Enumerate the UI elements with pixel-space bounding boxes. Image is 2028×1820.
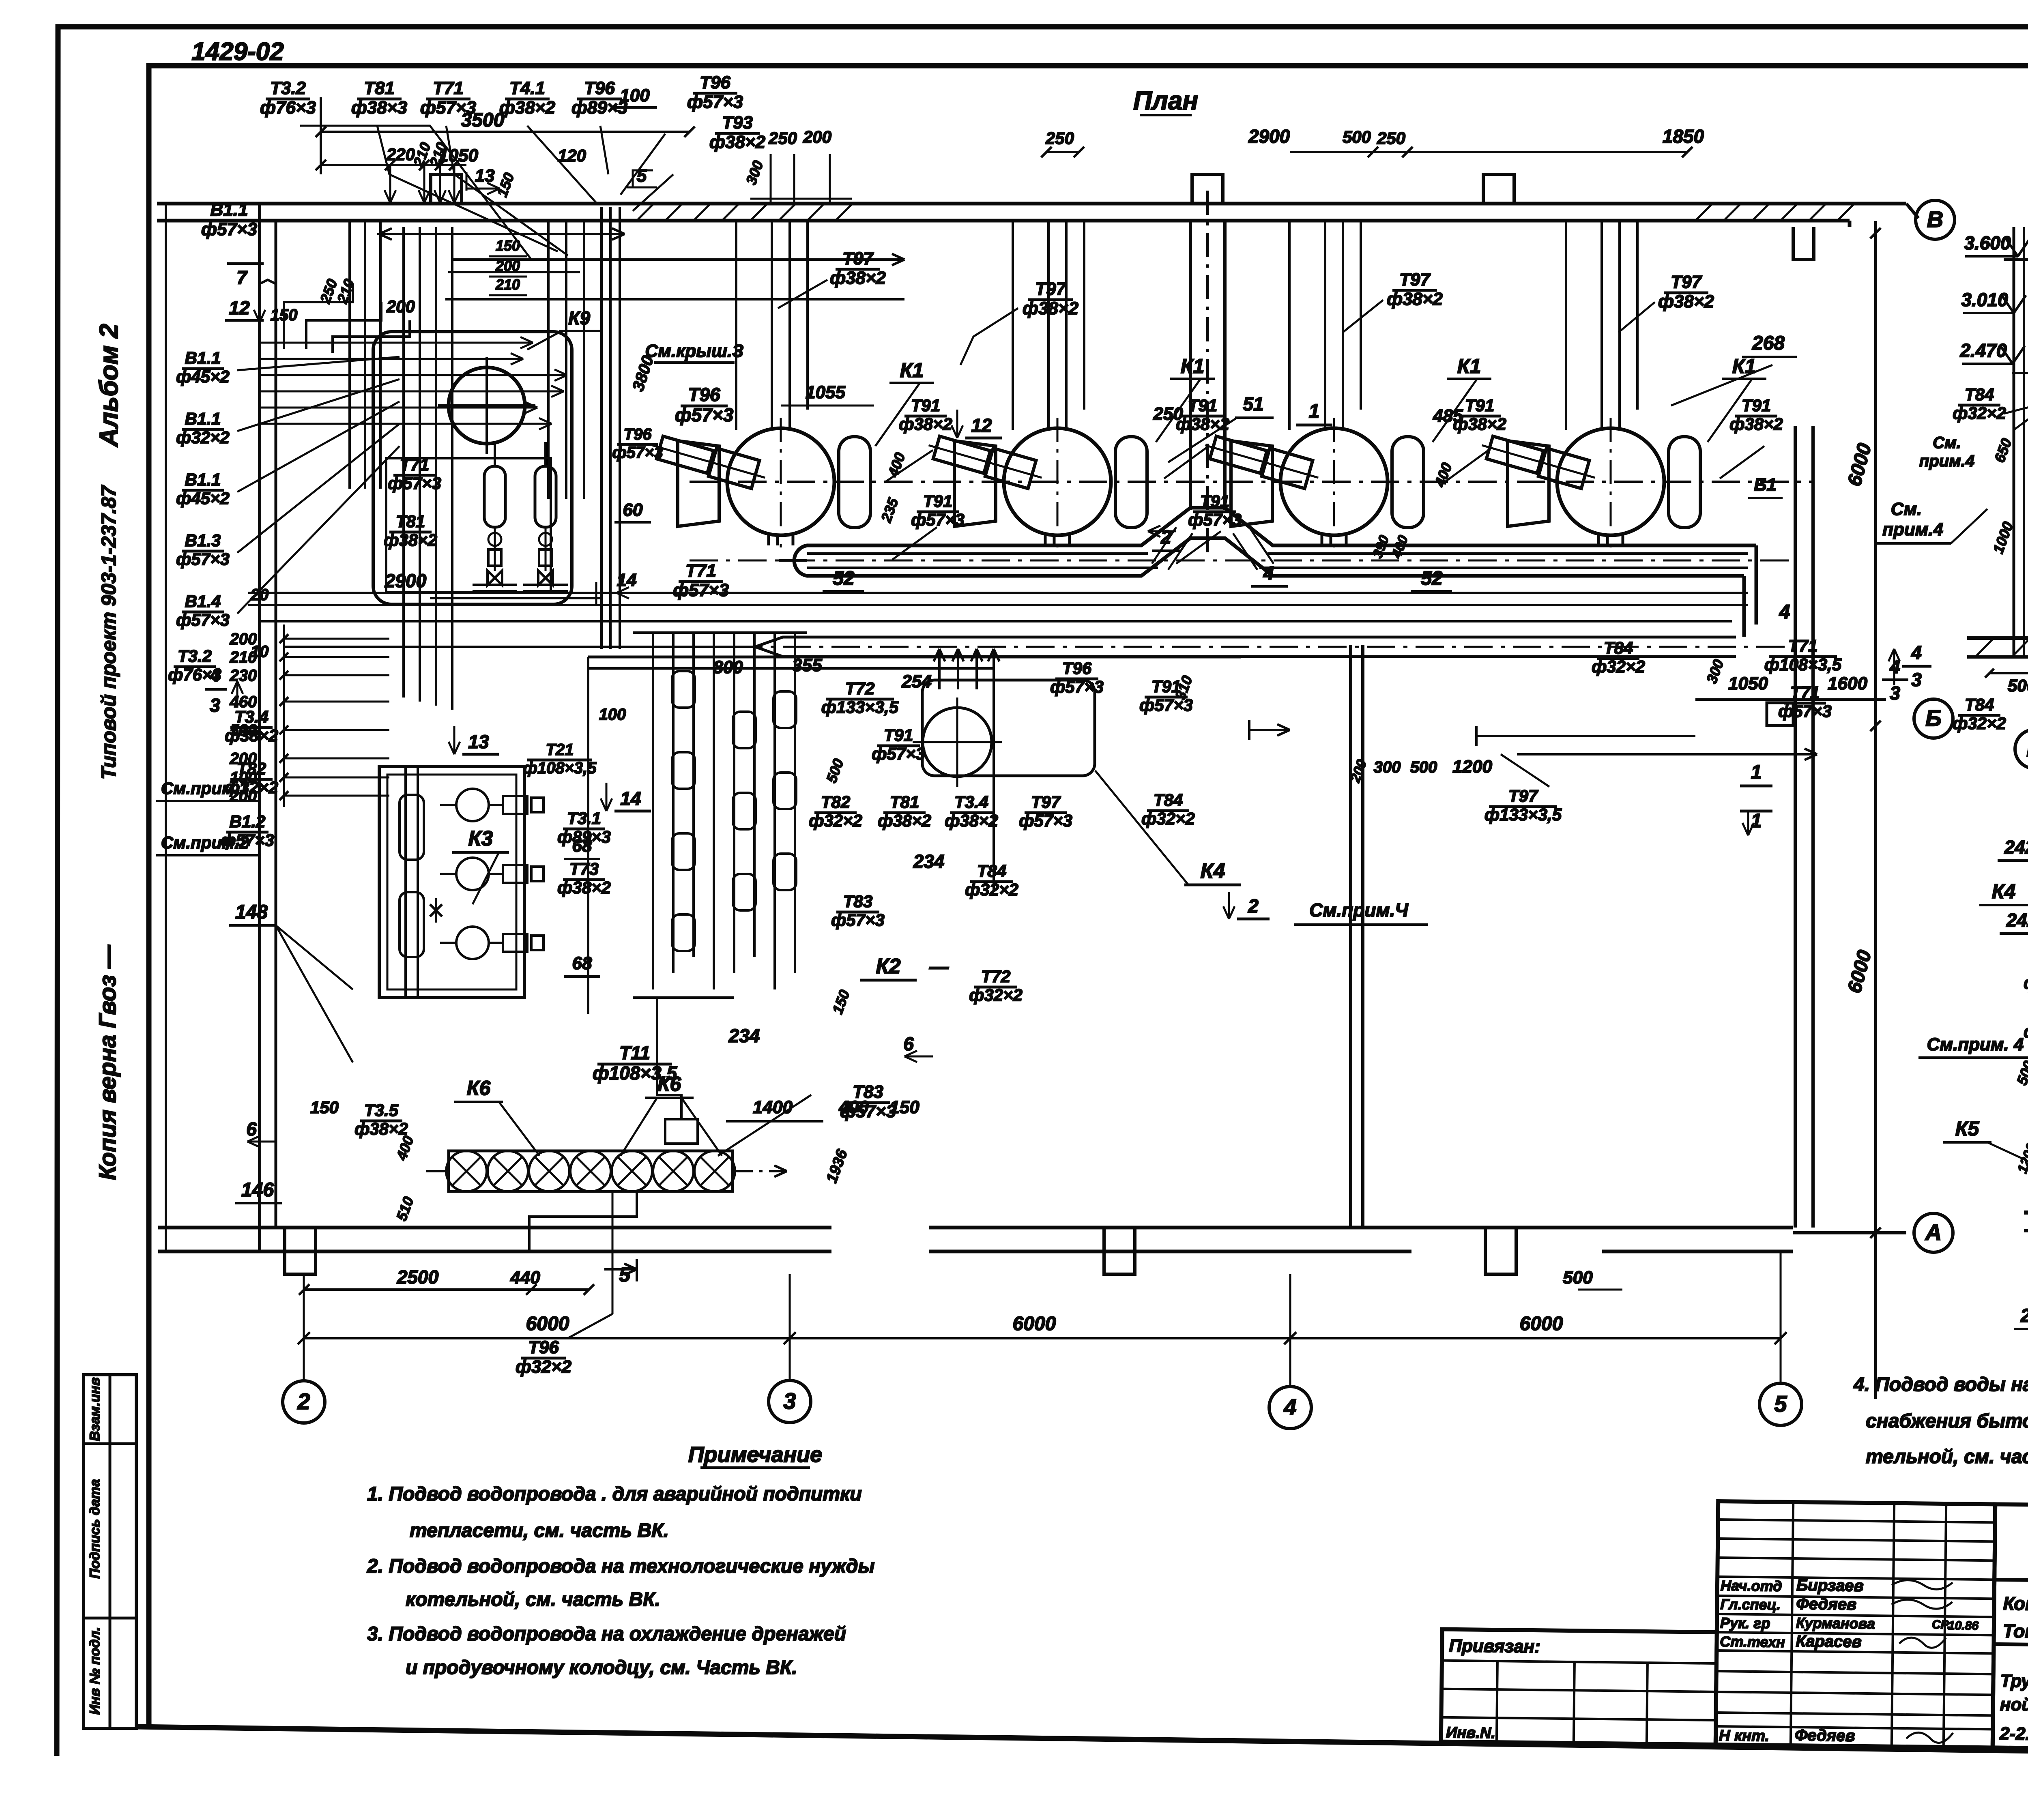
- svg-text:ф57×3: ф57×3: [388, 474, 441, 493]
- svg-text:2900: 2900: [1248, 126, 1290, 147]
- svg-text:Т84: Т84: [977, 861, 1006, 880]
- svg-text:4: 4: [1889, 656, 1900, 677]
- svg-text:Т96: Т96: [688, 384, 720, 405]
- mark 13: [449, 726, 499, 754]
- upper-left riser labels: [168, 200, 527, 684]
- svg-text:3: 3: [1890, 682, 1900, 704]
- svg-text:Б: Б: [1925, 705, 1942, 731]
- vessel columns pair: [430, 442, 600, 598]
- svg-text:Т97: Т97: [1508, 786, 1538, 805]
- svg-text:485: 485: [1433, 406, 1463, 426]
- K1 labels: [875, 355, 1766, 446]
- svg-text:250: 250: [1377, 129, 1405, 148]
- svg-text:ф38×2: ф38×2: [557, 878, 611, 897]
- svg-text:2900: 2900: [385, 570, 427, 591]
- svg-text:Т91: Т91: [1188, 396, 1217, 415]
- svg-text:ф57×3: ф57×3: [831, 910, 885, 929]
- heat exchanger bank: [633, 633, 807, 1144]
- svg-text:200: 200: [230, 630, 257, 648]
- manifold below collector: [588, 657, 1241, 1014]
- svg-text:ф38×2: ф38×2: [830, 268, 886, 288]
- svg-text:Т97: Т97: [1399, 270, 1431, 290]
- svg-text:Федяев: Федяев: [1796, 1595, 1856, 1614]
- svg-text:234: 234: [728, 1025, 760, 1046]
- svg-text:150: 150: [310, 1098, 339, 1117]
- K4 drain tank: [913, 649, 1290, 787]
- boiler K1 unit 2: [925, 221, 1147, 547]
- svg-text:Карасев: Карасев: [1796, 1632, 1862, 1651]
- internal partition wall: [1351, 645, 1363, 1228]
- svg-text:Типовой проект 903-1-237.87: Типовой проект 903-1-237.87: [97, 485, 120, 779]
- svg-text:1: 1: [1751, 762, 1762, 783]
- svg-text:ф38×2: ф38×2: [499, 98, 556, 118]
- svg-text:В1.1: В1.1: [185, 348, 221, 367]
- boiler K1 unit 3: [1201, 221, 1424, 547]
- svg-text:Котельная с 4 котлами Е-1-9ЖН: Котельная с 4 котлами Е-1-9ЖН: [2003, 1593, 2028, 1617]
- svg-text:20: 20: [250, 586, 269, 604]
- left attachment table: [1441, 1629, 1717, 1745]
- wall hatch marks: [637, 204, 1854, 221]
- svg-text:Т93: Т93: [722, 113, 753, 133]
- svg-text:4: 4: [1263, 563, 1274, 584]
- grid circle 3: [769, 1380, 811, 1423]
- svg-text:200: 200: [803, 127, 831, 146]
- svg-text:2500: 2500: [397, 1266, 439, 1288]
- svg-text:6000: 6000: [1520, 1313, 1563, 1335]
- svg-text:Т3.2: Т3.2: [270, 78, 306, 98]
- svg-text:200: 200: [386, 297, 415, 316]
- svg-text:Инв.N.: Инв.N.: [1446, 1724, 1495, 1742]
- svg-text:Т71: Т71: [1788, 636, 1817, 655]
- svg-text:тепласети, см. часть ВК.: тепласети, см. часть ВК.: [410, 1520, 669, 1541]
- svg-text:В1.3: В1.3: [185, 531, 221, 550]
- svg-text:Т83: Т83: [843, 892, 872, 911]
- svg-text:250: 250: [1045, 129, 1074, 148]
- svg-text:ф38×2: ф38×2: [354, 1119, 408, 1138]
- grid circle А: [1914, 1213, 1953, 1252]
- svg-text:прим.4: прим.4: [1919, 452, 1974, 470]
- svg-text:Т97: Т97: [1031, 792, 1061, 811]
- right building wall: [1767, 426, 1813, 1228]
- svg-text:Ст.техн: Ст.техн: [1720, 1633, 1785, 1650]
- grid circle Б section: [2015, 730, 2028, 768]
- svg-text:Т96: Т96: [528, 1337, 559, 1357]
- svg-text:Т96: Т96: [624, 425, 652, 443]
- svg-text:В1.4: В1.4: [185, 592, 221, 611]
- svg-text:120: 120: [558, 146, 586, 165]
- svg-text:Взам.инв: Взам.инв: [87, 1377, 103, 1441]
- svg-text:1: 1: [1309, 401, 1320, 422]
- svg-text:котельной, см. часть ВК.: котельной, см. часть ВК.: [406, 1589, 660, 1610]
- svg-text:—: —: [929, 956, 949, 978]
- svg-text:Инв № подл.: Инв № подл.: [87, 1627, 103, 1715]
- svg-text:Т71: Т71: [400, 455, 429, 474]
- svg-text:10.86: 10.86: [1948, 1619, 1979, 1633]
- main collector header: [690, 508, 1797, 637]
- svg-text:500: 500: [1343, 127, 1371, 146]
- svg-text:ф38×2: ф38×2: [1729, 414, 1783, 434]
- svg-text:Т91: Т91: [1742, 396, 1771, 415]
- svg-text:14: 14: [620, 788, 641, 809]
- svg-text:Т81: Т81: [890, 792, 919, 811]
- title block main: [1993, 1504, 2028, 1753]
- svg-text:Н кнт.: Н кнт.: [1719, 1727, 1770, 1745]
- svg-text:В1.1: В1.1: [185, 409, 221, 428]
- svg-text:268: 268: [1752, 333, 1785, 354]
- svg-text:52: 52: [833, 568, 855, 589]
- vertical pipes near K3: [400, 766, 424, 998]
- svg-text:ф38×2: ф38×2: [878, 811, 931, 830]
- exchanger bottom labels: [523, 706, 626, 977]
- svg-text:Т82: Т82: [237, 759, 266, 778]
- K3 internal pumps: [430, 789, 544, 959]
- svg-text:Т91: Т91: [1465, 396, 1494, 415]
- svg-text:1200: 1200: [1452, 757, 1492, 777]
- svg-text:68: 68: [572, 953, 592, 973]
- svg-text:прим.4: прим.4: [1882, 519, 1943, 539]
- left margin rotated captions: [94, 324, 123, 1180]
- svg-text:13: 13: [468, 731, 489, 752]
- svg-text:План: План: [1133, 86, 1198, 115]
- svg-text:Привязан:: Привязан:: [1449, 1636, 1540, 1657]
- manifold labels: [713, 636, 1886, 785]
- svg-text:Бирзаев: Бирзаев: [1796, 1576, 1864, 1595]
- svg-text:3.010: 3.010: [1961, 289, 2008, 310]
- svg-text:Т73: Т73: [569, 859, 599, 878]
- svg-text:ф45×2: ф45×2: [176, 367, 230, 386]
- svg-text:4: 4: [1283, 1394, 1296, 1420]
- svg-text:3500: 3500: [461, 109, 505, 131]
- svg-text:800: 800: [713, 657, 743, 677]
- svg-text:См.крыш.З: См.крыш.З: [645, 341, 744, 361]
- svg-text:См.прим.1: См.прим.1: [161, 779, 249, 798]
- svg-text:4: 4: [209, 664, 220, 685]
- K4 labels: [1095, 770, 1428, 925]
- svg-text:ф108×3,5: ф108×3,5: [1764, 655, 1842, 674]
- svg-text:ф32×2: ф32×2: [1141, 809, 1195, 828]
- svg-text:ф38×2: ф38×2: [899, 414, 952, 434]
- svg-text:1050: 1050: [1728, 674, 1768, 693]
- svg-text:Т72: Т72: [845, 679, 874, 698]
- mark 14: [601, 783, 651, 811]
- svg-text:100: 100: [620, 86, 650, 105]
- svg-text:ф38×2: ф38×2: [225, 726, 278, 745]
- left horizontal pipes to equipment: [260, 337, 567, 429]
- drop pipe from K6: [529, 1191, 637, 1314]
- T97 leader diagonals: [778, 280, 1655, 365]
- svg-text:К1: К1: [1181, 355, 1205, 378]
- section 1-1 level marks: [1959, 225, 2028, 638]
- misc labels near boilers: [781, 333, 1797, 525]
- svg-text:5: 5: [637, 166, 647, 186]
- svg-text:500: 500: [1410, 758, 1437, 776]
- svg-text:Т81: Т81: [364, 78, 395, 98]
- tank circle with cross: [438, 357, 535, 454]
- svg-text:52: 52: [1421, 568, 1443, 589]
- svg-text:Подпись дата: Подпись дата: [87, 1479, 103, 1578]
- vertical pipe bundle left: [404, 227, 452, 710]
- svg-text:300: 300: [1374, 758, 1401, 776]
- wall pillar stubs: [285, 174, 1516, 1274]
- svg-text:К1: К1: [900, 359, 924, 382]
- svg-text:ф32×2: ф32×2: [176, 428, 230, 447]
- svg-text:5: 5: [1774, 1391, 1787, 1417]
- svg-text:1429-02: 1429-02: [191, 38, 284, 66]
- torpedo header pipe: [284, 637, 1797, 657]
- svg-text:ф32×2: ф32×2: [516, 1357, 572, 1377]
- svg-text:и продувочному колодцу, см.: и продувочному колодцу, см. Часть ВК.: [406, 1657, 797, 1678]
- leader diagonals left: [237, 357, 400, 614]
- svg-text:Б: Б: [2026, 736, 2028, 761]
- svg-text:ф57×3: ф57×3: [176, 549, 230, 569]
- svg-text:ф108×3,5: ф108×3,5: [523, 759, 597, 777]
- svg-text:тельной, см. часть ВК.: тельной, см. часть ВК.: [1866, 1446, 2028, 1468]
- svg-text:К6: К6: [657, 1073, 682, 1095]
- svg-text:ф76×3: ф76×3: [260, 98, 316, 118]
- svg-text:3.600: 3.600: [1964, 232, 2011, 253]
- svg-text:6000: 6000: [1013, 1313, 1056, 1335]
- svg-text:Т72: Т72: [981, 967, 1010, 986]
- svg-text:ф38×2: ф38×2: [1658, 292, 1714, 311]
- mid-right pipes to Б: [1347, 726, 1817, 835]
- svg-text:Копия верна Гвоз —: Копия верна Гвоз —: [95, 944, 121, 1180]
- svg-text:440: 440: [510, 1268, 540, 1288]
- svg-text:ф57×3: ф57×3: [1778, 702, 1832, 721]
- svg-text:В1.1: В1.1: [185, 470, 221, 489]
- svg-text:500: 500: [1563, 1268, 1593, 1288]
- K6 labels: [235, 1073, 722, 1223]
- svg-text:ф32×2: ф32×2: [1592, 657, 1645, 676]
- top pipe labels row: [260, 73, 766, 152]
- svg-text:3: 3: [1911, 669, 1922, 690]
- svg-text:К1: К1: [1457, 355, 1481, 378]
- svg-text:См.прим. 4: См.прим. 4: [1927, 1034, 2024, 1054]
- svg-text:7: 7: [236, 267, 248, 288]
- see note 4 plan label: [1874, 499, 1987, 543]
- svg-text:Примечание: Примечание: [688, 1442, 823, 1467]
- note 4: [1853, 1374, 2028, 1468]
- section 1-1 left labels: [1919, 385, 2028, 658]
- svg-text:14: 14: [617, 570, 637, 590]
- svg-text:Федяев: Федяев: [1795, 1726, 1855, 1745]
- svg-text:250: 250: [768, 129, 797, 148]
- svg-text:ф38×2: ф38×2: [1387, 289, 1443, 309]
- svg-text:2: 2: [1160, 526, 1171, 547]
- svg-text:242: 242: [2006, 910, 2028, 931]
- svg-text:1055: 1055: [806, 382, 845, 402]
- svg-text:234: 234: [913, 851, 945, 872]
- svg-text:ф57×3: ф57×3: [687, 92, 743, 112]
- note 2: [367, 1556, 874, 1610]
- svg-text:1850: 1850: [1663, 126, 1704, 147]
- svg-text:А: А: [1925, 1219, 1942, 1245]
- svg-text:4: 4: [1779, 601, 1790, 623]
- svg-text:13: 13: [475, 166, 495, 186]
- section 2-2 bottom dims: [2014, 1233, 2028, 1374]
- svg-text:4: 4: [1911, 642, 1922, 663]
- section 1-1 bottom dims: [1882, 656, 2028, 733]
- svg-text:355: 355: [792, 655, 822, 675]
- svg-text:12: 12: [229, 297, 250, 318]
- svg-text:ф57×3: ф57×3: [872, 744, 925, 763]
- vertical pipe bundle 2: [548, 207, 620, 649]
- svg-text:6000: 6000: [526, 1313, 569, 1335]
- svg-text:К2: К2: [876, 955, 901, 978]
- svg-text:242: 242: [2004, 837, 2028, 858]
- svg-text:200: 200: [495, 258, 520, 274]
- svg-text:В1.2: В1.2: [230, 812, 266, 831]
- svg-text:ф38×3: ф38×3: [351, 98, 407, 118]
- svg-text:3: 3: [783, 1388, 796, 1414]
- svg-text:400: 400: [838, 1097, 869, 1117]
- mark 4-3 right: [1888, 642, 1931, 690]
- top wall axis В: [157, 204, 1918, 227]
- labels left of K3: [156, 707, 353, 1062]
- svg-text:ф57×3: ф57×3: [201, 219, 257, 239]
- svg-text:1. Подвод водопровода . для: 1. Подвод водопровода . для аварийной по…: [367, 1483, 862, 1505]
- T91 leader diagonals: [884, 446, 1764, 564]
- svg-text:Т96: Т96: [1062, 659, 1092, 678]
- svg-text:Т21: Т21: [546, 741, 574, 759]
- svg-text:Т96: Т96: [700, 73, 730, 92]
- top dimension 3500: [316, 97, 695, 203]
- svg-text:ф57×3: ф57×3: [911, 510, 965, 529]
- svg-text:ф32×2: ф32×2: [2024, 973, 2028, 992]
- boiler K1 unit 1: [648, 221, 870, 547]
- svg-text:Т84: Т84: [1965, 385, 1994, 404]
- svg-text:ф32×2: ф32×2: [809, 811, 862, 830]
- svg-text:ф57×3: ф57×3: [675, 404, 734, 425]
- svg-text:1400: 1400: [753, 1097, 793, 1117]
- svg-text:Т71: Т71: [685, 561, 716, 581]
- svg-text:Т91: Т91: [911, 396, 940, 415]
- mark 7-12 bracket: [225, 264, 265, 322]
- collector labels: [823, 526, 1790, 623]
- axis extent dimension 6000s: [298, 1268, 1787, 1344]
- svg-text:ф32×2: ф32×2: [1953, 403, 2006, 423]
- K3 tank: [379, 766, 524, 998]
- svg-text:Т3.4: Т3.4: [234, 707, 269, 726]
- svg-text:Гл.спец.: Гл.спец.: [1720, 1596, 1781, 1613]
- svg-text:1: 1: [1751, 810, 1762, 832]
- svg-text:150: 150: [496, 237, 520, 254]
- svg-text:К9: К9: [568, 307, 590, 328]
- svg-text:ф32×2: ф32×2: [1953, 714, 2006, 733]
- svg-text:К1: К1: [1732, 355, 1756, 378]
- svg-text:ф38×2: ф38×2: [709, 132, 766, 152]
- svg-text:150: 150: [889, 1097, 919, 1117]
- T91 labels row: [673, 396, 1783, 600]
- svg-text:Т11: Т11: [619, 1042, 650, 1063]
- svg-text:Т97: Т97: [842, 249, 874, 268]
- section 2-2 left labels: [1918, 955, 2028, 1187]
- svg-text:Т71: Т71: [433, 78, 464, 98]
- note 1: [367, 1483, 862, 1541]
- svg-text:Т3.2: Т3.2: [178, 646, 212, 665]
- dim cascade left of plan: [205, 625, 389, 807]
- svg-text:Т97: Т97: [1035, 279, 1067, 299]
- svg-text:Т3.4: Т3.4: [954, 792, 988, 811]
- svg-text:500: 500: [2008, 676, 2028, 695]
- svg-text:12: 12: [971, 415, 992, 436]
- svg-text:6: 6: [903, 1033, 914, 1054]
- svg-text:Топливо - печное бытовое.: Топливо - печное бытовое.: [2003, 1620, 2028, 1644]
- svg-text:Рук. гр: Рук. гр: [1720, 1614, 1770, 1631]
- note 3: [367, 1623, 846, 1678]
- svg-text:2-2.: 2-2.: [1999, 1724, 2028, 1744]
- svg-text:К5: К5: [1955, 1117, 1980, 1140]
- svg-text:ф57×3: ф57×3: [1019, 811, 1072, 830]
- grid circle Б plan: [1914, 699, 1953, 738]
- svg-text:4. Подвод воды на нужды г: 4. Подвод воды на нужды горячего вода-: [1853, 1374, 2028, 1395]
- svg-text:ф32×2: ф32×2: [2024, 1022, 2028, 1041]
- svg-text:ф57×3: ф57×3: [176, 610, 230, 629]
- svg-text:230: 230: [230, 667, 257, 685]
- T97 labels row: [830, 249, 1714, 318]
- svg-text:ф38×2: ф38×2: [384, 530, 437, 549]
- svg-text:Б1: Б1: [1754, 475, 1777, 495]
- svg-text:2. Подвод водопровода на те: 2. Подвод водопровода на технологические…: [367, 1556, 874, 1577]
- svg-text:Т3.5: Т3.5: [364, 1101, 399, 1120]
- svg-text:ф133×3,5: ф133×3,5: [1484, 805, 1562, 824]
- svg-text:Т82: Т82: [821, 792, 850, 811]
- section 1-1 extra leaders: [2004, 211, 2028, 620]
- svg-text:К4: К4: [1992, 880, 2016, 903]
- svg-text:100: 100: [599, 706, 626, 723]
- svg-text:Альбом 2: Альбом 2: [94, 324, 123, 447]
- svg-text:ф38×2: ф38×2: [1176, 414, 1229, 434]
- horizontal distribution pipes: [260, 228, 904, 353]
- section 1-1 structure: [1967, 227, 2028, 657]
- svg-text:См.прим.Ч: См.прим.Ч: [1309, 899, 1409, 921]
- bottom mid labels: [516, 1033, 933, 1377]
- K6 drain channel circles: [426, 1151, 787, 1191]
- top leader lines: [300, 126, 673, 260]
- svg-text:Трубопроводы котель-: Трубопроводы котель-: [2000, 1671, 2028, 1693]
- section 2-2 top labels: [1979, 780, 2028, 934]
- pipe loop rounded rect: [373, 332, 572, 604]
- svg-text:ф32×2: ф32×2: [969, 985, 1023, 1004]
- svg-text:210: 210: [230, 648, 257, 666]
- svg-text:Т96: Т96: [584, 78, 615, 98]
- right vertical dimension 6000x2: [1844, 221, 1881, 1399]
- top wall end pillar: [1793, 227, 1814, 260]
- svg-text:148: 148: [235, 901, 268, 923]
- grid axis risers: [304, 1251, 1781, 1386]
- long pipe pair below collector: [248, 593, 1748, 621]
- svg-text:ной План. Разрезы 1-1,: ной План. Разрезы 1-1,: [2000, 1695, 2028, 1717]
- svg-text:1600: 1600: [1828, 674, 1867, 693]
- svg-text:Т4.1: Т4.1: [509, 78, 545, 98]
- svg-text:Т81: Т81: [396, 512, 425, 531]
- svg-text:51: 51: [1243, 393, 1263, 414]
- bottom wall axis А: [158, 1228, 1906, 1251]
- title block revision table: [1441, 1498, 2028, 1786]
- svg-text:снабжения бытовых помещений: снабжения бытовых помещений ко-: [1866, 1410, 2028, 1432]
- svg-text:В1.1: В1.1: [211, 200, 248, 220]
- svg-text:ф89×3: ф89×3: [557, 827, 611, 846]
- bottom dimension chain: [299, 1259, 637, 1295]
- svg-text:К6: К6: [467, 1077, 491, 1099]
- internal flue duct wall: [1190, 191, 1225, 560]
- svg-text:6: 6: [246, 1118, 257, 1140]
- svg-text:ф133×3,5: ф133×3,5: [821, 698, 899, 717]
- section 2-2 structure: [2024, 815, 2028, 1273]
- svg-text:Т84: Т84: [1604, 638, 1633, 657]
- svg-text:Т91: Т91: [884, 725, 913, 745]
- svg-text:ф38×2: ф38×2: [945, 811, 998, 830]
- svg-text:См.: См.: [1891, 499, 1922, 519]
